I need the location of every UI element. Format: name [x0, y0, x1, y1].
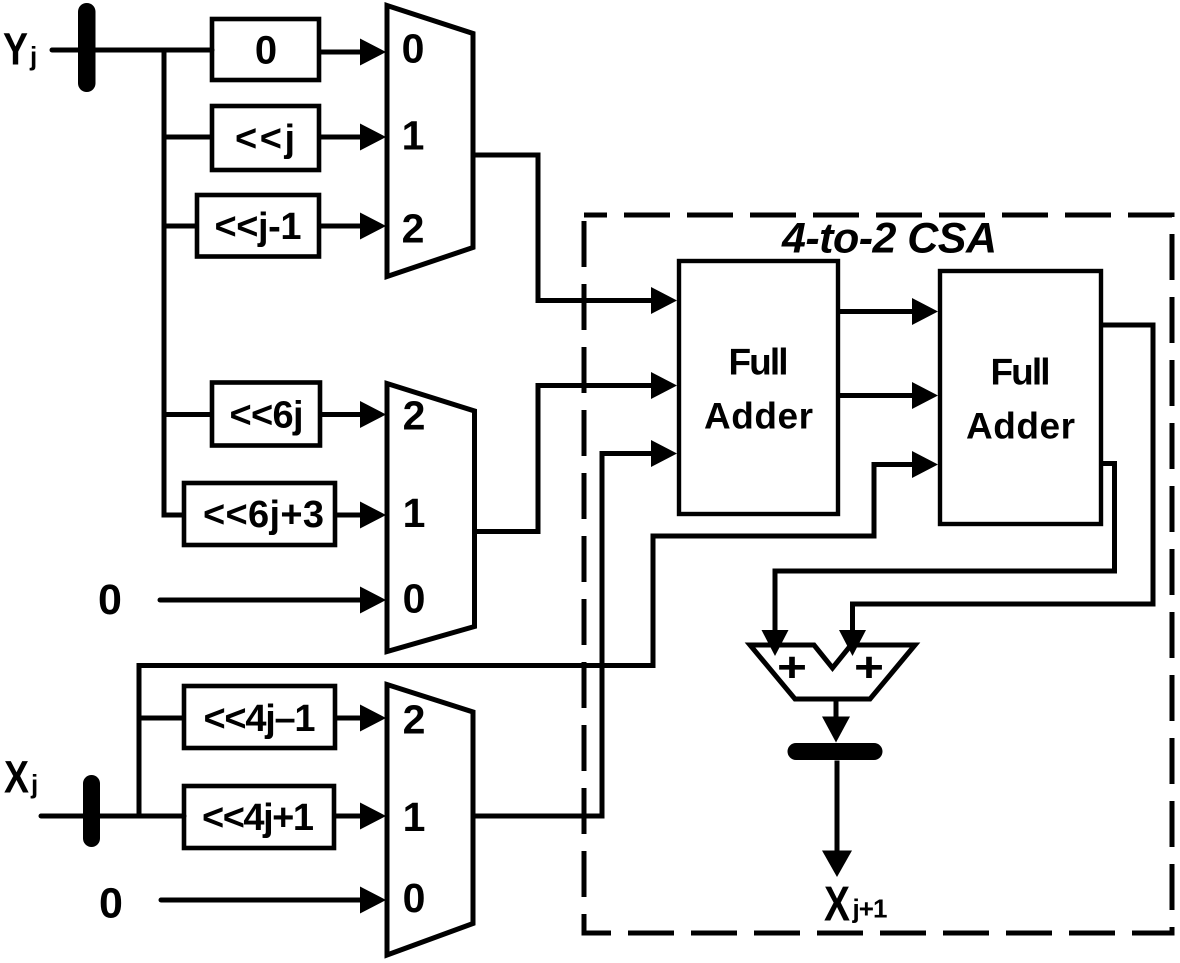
svg-text:0: 0 [403, 576, 426, 622]
full adder U1 [679, 261, 838, 514]
wire mux M1 output to full adder U1 input a [473, 155, 677, 314]
svg-text:X: X [4, 752, 29, 803]
svg-text:<<6j+3: <<6j+3 [203, 494, 324, 536]
svg-text:+: + [854, 644, 884, 691]
shift block <<j [212, 106, 319, 170]
shift block <<j-1 [197, 195, 319, 257]
arrow shift 6j+3 to mux M2 port 1 [337, 502, 386, 529]
wire mux M2 output to full adder U1 input b [475, 372, 678, 532]
mux M2 trapezoid [387, 384, 475, 652]
wire output to Xj+1 [822, 761, 852, 878]
shift block <<6j+3 [184, 483, 335, 545]
shift block <<4j+1 [184, 786, 334, 848]
arrow shift 6j to mux M2 port 2 [322, 401, 386, 428]
svg-text:1: 1 [402, 113, 425, 159]
wire branch to shift 6j [164, 412, 212, 417]
svg-text:0: 0 [402, 26, 425, 72]
svg-text:1: 1 [403, 794, 426, 840]
wire Xj input [41, 814, 184, 819]
svg-text:4-to-2 CSA: 4-to-2 CSA [781, 215, 997, 263]
shift block <<6j [212, 383, 320, 446]
wire full adder U1 output 2 to full adder U2 [840, 382, 938, 409]
wire branch to shift j-1 [164, 224, 199, 229]
svg-text:Y: Y [3, 24, 28, 75]
wire branch to shift 4j-1 [139, 716, 184, 721]
wire adder output to bus tick [822, 699, 850, 743]
svg-text:j+1: j+1 [852, 894, 888, 924]
wire full adder U1 output 1 to full adder U2 [840, 298, 938, 325]
wire branch to shift j [164, 135, 212, 140]
arrow shift j to mux M1 port 1 [321, 124, 386, 151]
svg-text:2: 2 [403, 697, 426, 743]
wire full adder U2 sum output to adder right input [839, 325, 1153, 656]
svg-text:j: j [30, 769, 38, 799]
mux M3 trapezoid [387, 685, 473, 956]
svg-text:Adder: Adder [704, 396, 813, 437]
svg-text:<<6j: <<6j [230, 395, 304, 437]
svg-text:2: 2 [403, 393, 426, 439]
svg-text:0: 0 [98, 576, 122, 624]
mux M1 trapezoid [387, 6, 473, 277]
svg-text:0: 0 [403, 875, 426, 921]
dashed box 4-to-2 CSA boundary [584, 215, 1172, 933]
svg-text:<<j: <<j [235, 118, 295, 160]
wire Xj branch and carry-in route to full adder U2 [139, 451, 938, 816]
arrow shift0 to mux M1 port 0 [321, 39, 386, 66]
shift block 0 [212, 19, 319, 80]
svg-text:1: 1 [403, 490, 426, 536]
input label Xj [4, 752, 38, 803]
svg-text:2: 2 [402, 206, 425, 252]
svg-text:0: 0 [99, 879, 123, 927]
svg-text:j: j [29, 41, 37, 71]
wire Yj input [52, 48, 212, 53]
arrow shift 4j+1 to mux M3 port 1 [336, 803, 386, 830]
bus width tick on Yj input [78, 3, 96, 92]
svg-text:Adder: Adder [966, 406, 1075, 447]
svg-text:<<j-1: <<j-1 [215, 206, 302, 248]
svg-text:<<4j–1: <<4j–1 [204, 698, 316, 740]
shift block <<4j-1 [184, 686, 335, 748]
wire Yj branch vertical [164, 50, 184, 515]
bus width tick on output [788, 743, 883, 760]
svg-text:Full: Full [991, 352, 1051, 393]
arrow 0 to mux M2 port 0 [160, 587, 386, 614]
svg-text:<<4j+1: <<4j+1 [202, 797, 314, 839]
bus width tick on Xj input [83, 775, 100, 847]
arrow shift 4j-1 to mux M3 port 2 [337, 705, 386, 732]
svg-text:+: + [777, 644, 807, 691]
carry propagate adder funnel [750, 644, 915, 700]
input label Yj [3, 24, 37, 75]
arrow 0 to mux M3 port 0 [161, 887, 386, 914]
svg-text:Full: Full [729, 342, 789, 383]
full adder U2 [940, 271, 1101, 524]
arrow shift j-1 to mux M1 port 2 [321, 213, 386, 240]
wire full adder U2 carry output to adder left input [762, 464, 1115, 657]
wire mux M3 output to full adder U1 input c [473, 440, 677, 816]
svg-text:0: 0 [255, 29, 277, 73]
output label Xj+1 [824, 878, 888, 932]
svg-text:X: X [824, 878, 850, 932]
